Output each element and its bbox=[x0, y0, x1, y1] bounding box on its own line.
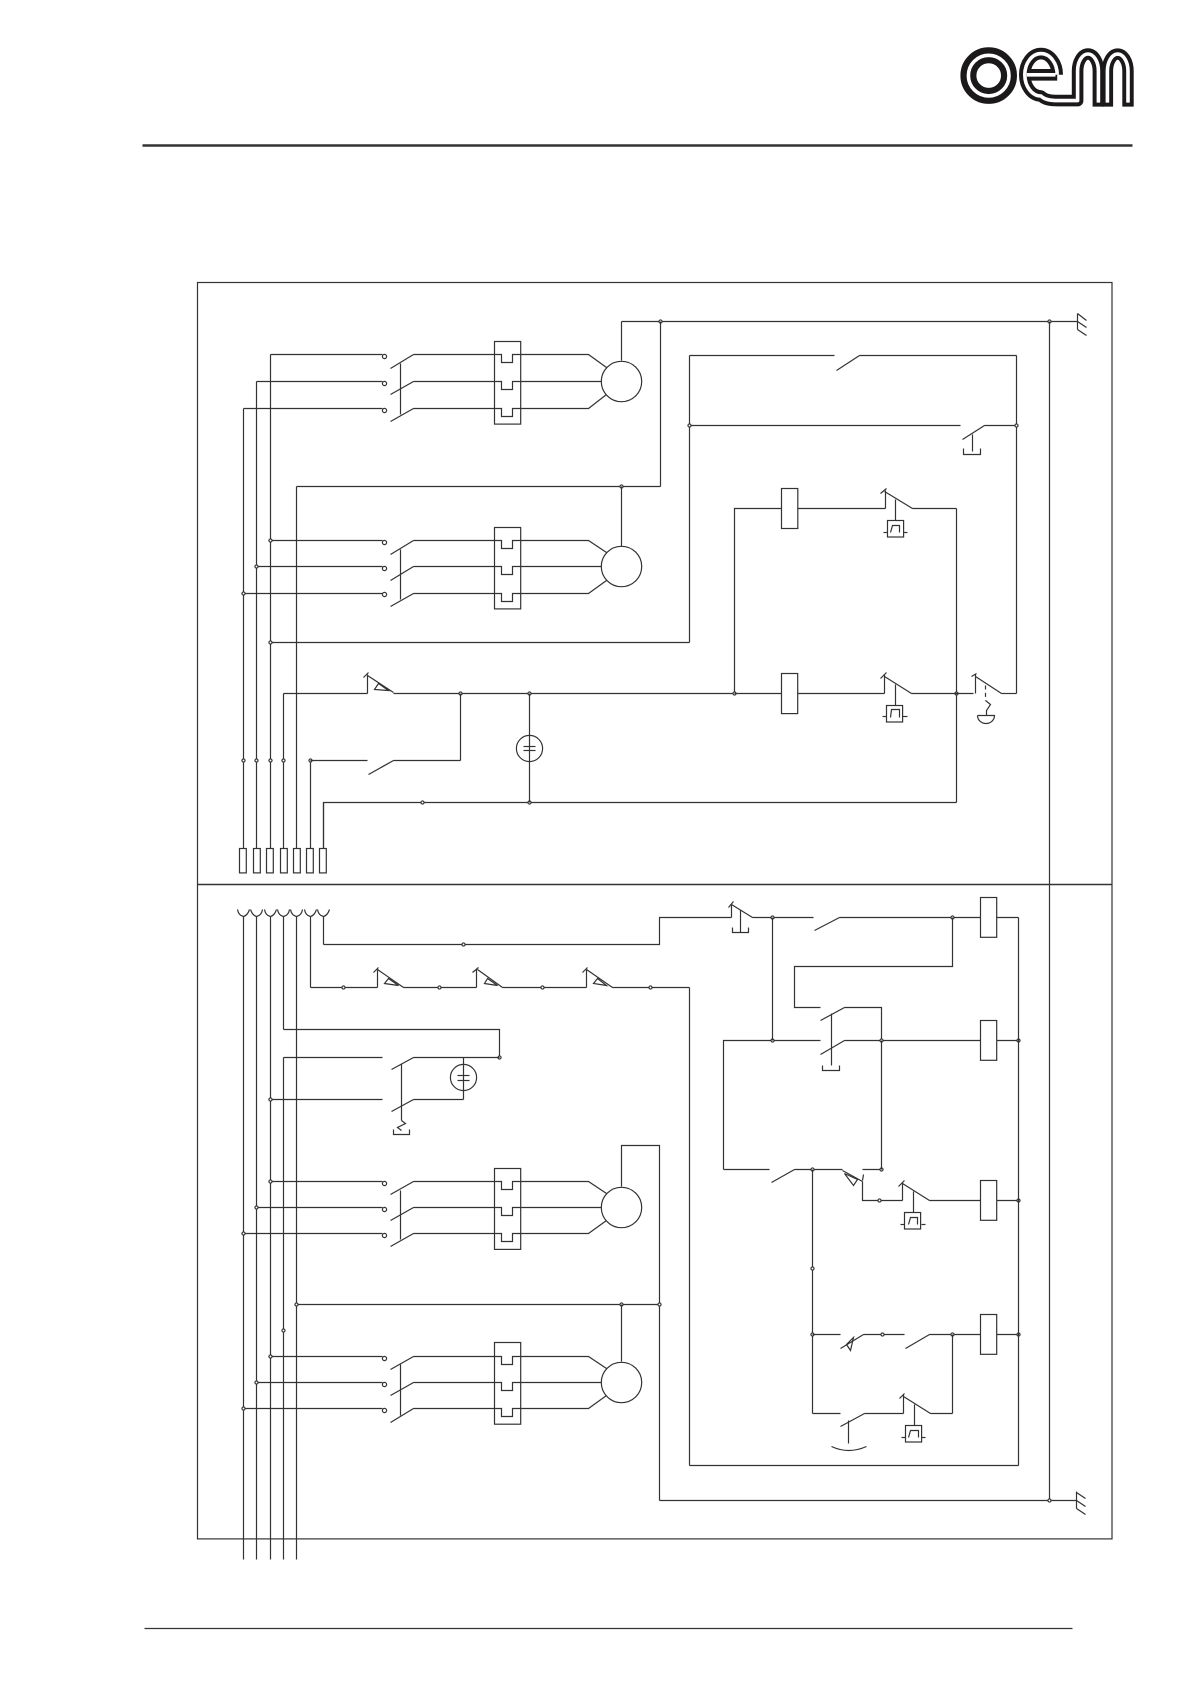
K1M/M1 contact terminal 2 bbox=[382, 381, 386, 385]
release blade row3 bbox=[843, 1171, 863, 1182]
overload NC F23 stub bbox=[586, 970, 588, 988]
connector socket 3 bbox=[265, 910, 277, 917]
K2M/M2 contact blade 2 bbox=[391, 567, 414, 581]
release tick row3 bbox=[863, 1175, 864, 1181]
K4M/M4 contact terminal 1 bbox=[382, 1356, 386, 1360]
junction dot row4 c bbox=[951, 1333, 954, 1336]
switch DE handle bbox=[394, 1130, 410, 1135]
switch DE spring bbox=[398, 1121, 406, 1131]
contact blade row5 bbox=[841, 1414, 865, 1427]
tap dot on bus 3 at y761 bbox=[269, 759, 272, 762]
overload NC F21 stub bbox=[377, 970, 379, 988]
K3M/M3 contact terminal 3 bbox=[382, 1233, 386, 1237]
K3 overload NC contact stub bbox=[902, 1183, 904, 1201]
switch S1 blade bbox=[963, 426, 985, 440]
changeover linkage bbox=[831, 1014, 833, 1066]
K2 overload NC contact actuator bbox=[895, 685, 897, 706]
motor K4M/M4 bbox=[601, 1362, 641, 1402]
switch F1 NC release blade bbox=[368, 676, 394, 693]
wire x460 drop bbox=[460, 694, 462, 761]
wire y508 seg2 bbox=[798, 508, 886, 510]
wire M4 feeder line bbox=[297, 1304, 660, 1306]
K1 overload NC contact whisker left bbox=[884, 532, 888, 534]
changeover handle bbox=[823, 1066, 840, 1071]
switch S2 stub bbox=[731, 905, 733, 918]
overload NC F23 release flag bbox=[594, 979, 607, 986]
junction dot y803 lamp bbox=[528, 801, 531, 804]
junction dot bus B3 M4 bbox=[269, 1355, 272, 1358]
control box left edge bbox=[689, 356, 691, 643]
switch blade top edge bbox=[837, 356, 860, 371]
K2 overload NC contact blade bbox=[885, 677, 912, 694]
wire row1 seg4 bbox=[997, 917, 1019, 919]
wire y693 seg5 bbox=[912, 693, 974, 695]
terminal pin X1-5 bbox=[294, 849, 301, 873]
wire row1 seg2 bbox=[753, 917, 814, 919]
junction dot feeder left bbox=[295, 1303, 298, 1306]
K1M/M1 contact blade 3 bbox=[391, 409, 414, 422]
K3 overload NC contact whisker left bbox=[901, 1224, 905, 1226]
stop switch link dashed bbox=[985, 686, 987, 701]
wire motor M2 top bbox=[621, 487, 623, 547]
K3 overload NC contact pulse bbox=[909, 1218, 918, 1225]
wire drop x773 bbox=[772, 918, 774, 1041]
wire row3b seg2 bbox=[930, 1200, 981, 1202]
wire row5 seg3 bbox=[931, 1413, 953, 1415]
K4 overload NC contact whisker right bbox=[922, 1437, 926, 1439]
wire line D seg1 bbox=[284, 1057, 383, 1059]
switch S2 blade bbox=[732, 905, 753, 918]
junction dot line CD bbox=[498, 1056, 501, 1059]
junction dot y426 right bbox=[1015, 424, 1018, 427]
K1M/M1 linkage bar bbox=[400, 364, 402, 415]
K4 overload NC contact stub bbox=[903, 1395, 905, 1414]
K4M/M4 overload relay box bbox=[495, 1343, 521, 1425]
wire line B seg1 bbox=[311, 987, 378, 989]
junction dot x956 y693 bbox=[955, 692, 958, 695]
K4M/M4 contact terminal 3 bbox=[382, 1408, 386, 1412]
contact blade row3 bbox=[772, 1170, 795, 1183]
chassis earth top bbox=[1078, 314, 1087, 336]
wire bus B1 vertical bbox=[243, 917, 245, 1560]
contact K aux blade row1 bbox=[815, 918, 840, 931]
switch blade D bbox=[392, 1058, 414, 1070]
coil K3b bbox=[981, 1181, 997, 1221]
junction dot row1 b bbox=[951, 916, 954, 919]
panel divider bbox=[198, 884, 1113, 886]
wire y693 seg3 bbox=[735, 693, 782, 695]
K2 overload NC contact whisker right bbox=[903, 716, 908, 718]
wire bus L1 vertical bbox=[243, 409, 245, 849]
contact blade upper throw bbox=[821, 1008, 845, 1021]
K2M/M2 wire overload to motor 1 bbox=[521, 541, 607, 553]
wire bus B4 vertical lower bbox=[283, 1058, 285, 1560]
control box2 right edge bbox=[1018, 918, 1020, 1466]
wire row2 seg3 bbox=[997, 1040, 1019, 1042]
K4M/M4 wire overload to motor 1 bbox=[521, 1357, 607, 1369]
wire row1 seg3 bbox=[840, 917, 981, 919]
K3M/M3 wire to overload 1 bbox=[414, 1181, 495, 1183]
K2M/M2 wire overload to motor 2 bbox=[521, 566, 602, 568]
junction dot M2 top bbox=[620, 485, 623, 488]
junction dot bus T6 top bbox=[309, 759, 312, 762]
wire y426 seg1 bbox=[690, 425, 961, 427]
K4M/M4 heater element 3 bbox=[495, 1409, 521, 1417]
junction dot bus L2 M2 bbox=[255, 565, 258, 568]
K4M/M4 wire to overload 2 bbox=[414, 1382, 495, 1384]
K2M/M2 contact terminal 1 bbox=[382, 540, 386, 544]
chassis earth bottom bbox=[1077, 1492, 1086, 1515]
overload NC F21 blade bbox=[378, 970, 404, 988]
connector socket 5 bbox=[291, 910, 303, 917]
wire y693 seg6 bbox=[1002, 693, 1017, 695]
switch S2 stem bbox=[740, 911, 742, 933]
motor K1M/M1 bbox=[601, 361, 641, 401]
junction dot row3b bbox=[878, 1199, 881, 1202]
wire bus T7 vertical bbox=[323, 803, 325, 849]
wire M2 feeder line y486 bbox=[297, 486, 661, 488]
K4 overload NC contact tick bbox=[900, 1394, 905, 1399]
K4 overload NC contact actuator bbox=[914, 1405, 916, 1426]
K3 overload NC contact actuator bbox=[913, 1192, 915, 1213]
K3M/M3 contact terminal 1 bbox=[382, 1181, 386, 1185]
switch F1 NC release release flag bbox=[375, 684, 389, 691]
switch row5 actuator arc bbox=[832, 1447, 867, 1451]
contact blade row4 bbox=[906, 1335, 930, 1349]
overload NC F22 blade bbox=[478, 970, 503, 988]
wire bus B6 vertical bbox=[310, 917, 312, 988]
logo oem bbox=[968, 54, 1128, 107]
switch blade E bbox=[392, 1100, 414, 1112]
K2M/M2 wire to overload 3 bbox=[414, 593, 495, 595]
junction dot row3 b bbox=[880, 1168, 883, 1171]
junction dot bottom rail bbox=[1048, 1499, 1051, 1502]
wire row4 seg1 bbox=[813, 1334, 841, 1336]
K1M/M1 overload relay box bbox=[495, 342, 521, 425]
K4M/M4 heater element 1 bbox=[495, 1357, 521, 1365]
release blade row4 bbox=[841, 1335, 864, 1349]
junction dot row4 right bbox=[1017, 1333, 1020, 1336]
K2 overload NC contact stub bbox=[884, 675, 886, 694]
K1M/M1 wire overload to motor 2 bbox=[521, 381, 602, 383]
K2M/M2 wire to overload 2 bbox=[414, 566, 495, 568]
stop switch spring bbox=[986, 701, 991, 716]
K3M/M3 wire overload to motor 1 bbox=[521, 1182, 607, 1194]
wire M2 phase 2 bbox=[257, 566, 383, 568]
control box top edge seg2 bbox=[860, 355, 1017, 357]
K4 overload NC contact whisker left bbox=[902, 1437, 906, 1439]
wire y508 seg3 bbox=[913, 508, 957, 510]
K1M/M1 wire to overload 3 bbox=[414, 408, 495, 410]
control box2 left edge bbox=[689, 988, 691, 1466]
K2M/M2 contact terminal 3 bbox=[382, 592, 386, 596]
release flag row4 bbox=[847, 1338, 854, 1351]
K1M/M1 contact blade 2 bbox=[391, 382, 414, 395]
K1 overload NC contact pulse bbox=[891, 526, 900, 533]
wire drop x881 bbox=[881, 1041, 883, 1170]
junction dot row2 b bbox=[880, 1039, 883, 1042]
junction dot top rail A bbox=[659, 320, 662, 323]
K2 overload NC contact tick bbox=[881, 673, 887, 679]
lamp H1 bar 1 bbox=[524, 746, 536, 748]
tap dot x812 bbox=[811, 1267, 814, 1270]
switch S1 stem bbox=[972, 435, 974, 452]
wire line B seg2 bbox=[404, 987, 477, 989]
coil K1 bbox=[782, 489, 798, 529]
terminal pin X1-4 bbox=[281, 849, 288, 873]
wire drop x660 bbox=[660, 322, 662, 487]
wire y641 to bus L3 bbox=[271, 642, 690, 644]
inner box corner wire bbox=[735, 509, 782, 694]
wire row3b seg3 bbox=[997, 1200, 1019, 1202]
junction dot feeder M4 bbox=[620, 1303, 623, 1306]
wire M3 phase 2 bbox=[257, 1207, 383, 1209]
K2M/M2 heater element 2 bbox=[495, 567, 521, 575]
wire bus T4 vertical bbox=[283, 694, 285, 849]
K3M/M3 wire to overload 3 bbox=[414, 1233, 495, 1235]
junction dot y693 a bbox=[459, 692, 462, 695]
overload NC F23 blade bbox=[587, 970, 613, 988]
junction dot row4 a bbox=[811, 1333, 814, 1336]
junction dot row4 b bbox=[881, 1333, 884, 1336]
connector socket 1 bbox=[238, 910, 250, 917]
wire row3 seg1 bbox=[724, 1169, 770, 1171]
control box2 bottom edge bbox=[690, 1465, 1019, 1467]
K2 overload NC contact thermal box bbox=[887, 706, 903, 723]
switch F1 NC release tick bbox=[364, 673, 369, 678]
K3M/M3 wire overload to motor 2 bbox=[521, 1207, 602, 1209]
wire line D seg2 bbox=[414, 1057, 500, 1059]
wire bus B7 vertical bbox=[323, 917, 325, 945]
junction dot y693 c bbox=[733, 692, 736, 695]
lamp H1 bar 2 bbox=[524, 750, 536, 752]
wire long vertical x1049 bbox=[1049, 322, 1051, 1501]
K1M/M1 contact terminal 1 bbox=[382, 354, 386, 358]
motor K3M/M3 bbox=[601, 1187, 641, 1227]
wire bus L3 vertical bbox=[270, 355, 272, 849]
K2M/M2 wire to overload 1 bbox=[414, 540, 495, 542]
K4 overload NC contact thermal box bbox=[906, 1426, 922, 1443]
K3 overload NC contact whisker right bbox=[922, 1224, 926, 1226]
junction dot bus L1 M2 bbox=[242, 592, 245, 595]
K2M/M2 wire overload to motor 3 bbox=[521, 581, 607, 594]
K4M/M4 heater element 2 bbox=[495, 1383, 521, 1391]
switch row5 stem bbox=[848, 1421, 850, 1444]
wire bus T6 vertical bbox=[310, 761, 312, 849]
wire row3 drop bbox=[863, 1182, 903, 1201]
K3M/M3 heater element 2 bbox=[495, 1208, 521, 1216]
K1 overload NC contact blade bbox=[885, 492, 913, 509]
wire row5 seg1 bbox=[813, 1413, 841, 1415]
K1 overload NC contact tick bbox=[881, 489, 887, 494]
K2M/M2 contact blade 1 bbox=[391, 541, 414, 555]
K3M/M3 overload relay box bbox=[495, 1169, 521, 1250]
K4M/M4 wire overload to motor 3 bbox=[521, 1396, 607, 1409]
terminal pin X1-7 bbox=[320, 849, 327, 873]
K4M/M4 wire to overload 1 bbox=[414, 1356, 495, 1358]
K1M/M1 heater element 1 bbox=[495, 355, 521, 363]
coil K2 bbox=[782, 674, 798, 714]
overload NC F22 release flag bbox=[485, 979, 498, 986]
wire M1 phase 1 bbox=[271, 354, 383, 356]
lamp H2 bbox=[450, 1064, 476, 1090]
K4M/M4 contact blade 3 bbox=[391, 1409, 414, 1423]
junction dot feeder right bbox=[658, 1303, 661, 1306]
junction dot bus L3 M2 bbox=[269, 539, 272, 542]
wire M1 phase 2 bbox=[257, 381, 383, 383]
wire top rail bbox=[622, 321, 1078, 323]
K1 overload NC contact stub bbox=[885, 491, 887, 509]
wire bus B3 vertical bbox=[270, 917, 272, 1560]
switch F1 NC release stub bbox=[367, 675, 369, 694]
wire row3 seg2 bbox=[795, 1169, 843, 1171]
wire line C bbox=[284, 1030, 500, 1058]
wire row5 seg2 bbox=[865, 1413, 904, 1415]
wire row2 seg2 bbox=[845, 1040, 981, 1042]
wire y761 seg2 bbox=[394, 760, 461, 762]
junction dot bus B3 M3 bbox=[269, 1180, 272, 1183]
coil K1b bbox=[981, 898, 997, 938]
coil K4b bbox=[981, 1315, 997, 1355]
K3M/M3 contact blade 3 bbox=[391, 1234, 414, 1247]
wire row2 seg1 bbox=[724, 1041, 821, 1170]
K1M/M1 heater element 3 bbox=[495, 409, 521, 417]
wire rise x952 bbox=[952, 1335, 954, 1414]
K3M/M3 linkage bar bbox=[400, 1191, 402, 1240]
overload NC F23 tick bbox=[583, 968, 588, 973]
junction dot line E bbox=[269, 1098, 272, 1101]
control box right edge bbox=[1016, 356, 1018, 694]
wire bus B4 vertical upper bbox=[283, 917, 285, 1030]
junction dot bus B2 M4 bbox=[255, 1381, 258, 1384]
wire bus L2 vertical bbox=[256, 382, 258, 849]
motor K2M/M2 bbox=[601, 546, 641, 586]
wire motor M4 top bbox=[621, 1305, 623, 1362]
wire y761 seg1 bbox=[311, 760, 368, 762]
wire bypass loop bbox=[795, 918, 953, 1008]
K1M/M1 wire to overload 2 bbox=[414, 381, 495, 383]
junction dot line B a bbox=[342, 986, 345, 989]
K2 overload NC contact pulse bbox=[891, 710, 900, 718]
K3M/M3 contact blade 1 bbox=[391, 1182, 414, 1195]
stop switch blade bbox=[976, 677, 1002, 694]
tap dot bus B4 bbox=[282, 1329, 285, 1332]
K4M/M4 linkage bar bbox=[400, 1365, 402, 1416]
terminal pin X1-3 bbox=[267, 849, 274, 873]
switch DE linkage bbox=[401, 1064, 403, 1121]
junction dot line B c bbox=[541, 986, 544, 989]
K1 overload NC contact whisker right bbox=[904, 532, 908, 534]
header rule bbox=[143, 144, 1133, 147]
wire M4 phase 1 bbox=[271, 1356, 383, 1358]
K3M/M3 heater element 1 bbox=[495, 1182, 521, 1190]
K2M/M2 linkage bar bbox=[400, 550, 402, 600]
release flag row3 bbox=[845, 1174, 858, 1186]
wire upper throw to join bbox=[845, 1008, 882, 1041]
wire line A bbox=[324, 918, 732, 945]
wire row4 seg4 bbox=[997, 1334, 1019, 1336]
K2M/M2 contact blade 3 bbox=[391, 594, 414, 607]
wire line E seg2 bbox=[414, 1099, 464, 1101]
K3 overload NC contact blade bbox=[903, 1184, 930, 1201]
wire line E seg1 bbox=[271, 1099, 383, 1101]
wire M1 phase 3 bbox=[244, 408, 383, 410]
junction dot row1 a bbox=[771, 916, 774, 919]
overload NC F21 tick bbox=[374, 968, 379, 973]
junction dot row2 a bbox=[771, 1039, 774, 1042]
wire M3 phase 1 bbox=[271, 1181, 383, 1183]
tap dot on bus 4 at y761 bbox=[282, 759, 285, 762]
switch S1 handle bbox=[964, 449, 981, 455]
K1M/M1 contact terminal 3 bbox=[382, 408, 386, 412]
K1 overload NC contact thermal box bbox=[888, 521, 904, 538]
K2M/M2 heater element 3 bbox=[495, 594, 521, 602]
terminal pin X1-2 bbox=[254, 849, 261, 873]
K4 overload NC contact blade bbox=[904, 1397, 931, 1414]
wire bus B2 vertical bbox=[256, 917, 258, 1560]
K1M/M1 wire overload to motor 1 bbox=[521, 355, 607, 368]
tap dot y803 bbox=[421, 801, 424, 804]
K1M/M1 heater element 2 bbox=[495, 382, 521, 390]
junction dot top rail B bbox=[1048, 320, 1051, 323]
overload NC F22 tick bbox=[473, 968, 479, 973]
wire row4 seg3 bbox=[930, 1334, 981, 1336]
K2M/M2 heater element 1 bbox=[495, 541, 521, 549]
overload NC F21 release flag bbox=[385, 979, 399, 986]
stop switch tick bbox=[972, 674, 977, 677]
connector socket 7 bbox=[318, 910, 330, 917]
junction dot bus B1 M3 bbox=[242, 1232, 245, 1235]
control box top edge seg1 bbox=[690, 355, 835, 357]
wire line B seg4 bbox=[613, 987, 690, 989]
junction dot line B b bbox=[438, 986, 441, 989]
K3M/M3 wire to overload 2 bbox=[414, 1207, 495, 1209]
junction dot bus B1 M4 bbox=[242, 1407, 245, 1410]
lamp H1 bbox=[516, 735, 542, 761]
wire y426 seg2 bbox=[985, 425, 1017, 427]
wire drop x812 bbox=[812, 1170, 814, 1414]
K3M/M3 contact blade 2 bbox=[391, 1208, 414, 1221]
K3 overload NC contact thermal box bbox=[905, 1213, 921, 1230]
K3M/M3 contact terminal 2 bbox=[382, 1207, 386, 1211]
wire row3 seg3 bbox=[863, 1169, 882, 1171]
junction dot row3 a bbox=[811, 1168, 814, 1171]
junction dot line B d bbox=[649, 986, 652, 989]
K3 overload NC contact tick bbox=[899, 1181, 905, 1187]
K4M/M4 wire overload to motor 2 bbox=[521, 1382, 602, 1384]
wire M2 phase 1 bbox=[271, 540, 383, 542]
junction dot bus L3 y641 bbox=[269, 641, 272, 644]
K4M/M4 contact blade 2 bbox=[391, 1383, 414, 1396]
wire bus B5 vertical bbox=[296, 917, 298, 1560]
tap dot line A bbox=[462, 943, 465, 946]
wire M4 phase 3 bbox=[244, 1408, 383, 1410]
wire M2 phase 3 bbox=[244, 593, 383, 595]
junction dot row2 right bbox=[1017, 1039, 1020, 1042]
contact blade lower throw bbox=[821, 1041, 845, 1055]
connector socket 6 bbox=[305, 910, 317, 917]
stop switch stub bbox=[975, 675, 977, 694]
wire row4 seg2 bbox=[864, 1334, 905, 1336]
tap dot on bus 2 at y761 bbox=[255, 759, 258, 762]
stop switch mushroom head bbox=[978, 716, 995, 724]
wire line B seg3 bbox=[503, 987, 587, 989]
switch S2 tick bbox=[729, 902, 734, 908]
wire M4 phase 2 bbox=[257, 1382, 383, 1384]
connector socket 2 bbox=[251, 910, 263, 917]
K1M/M1 wire to overload 1 bbox=[414, 354, 495, 356]
terminal pin X1-6 bbox=[307, 849, 314, 873]
